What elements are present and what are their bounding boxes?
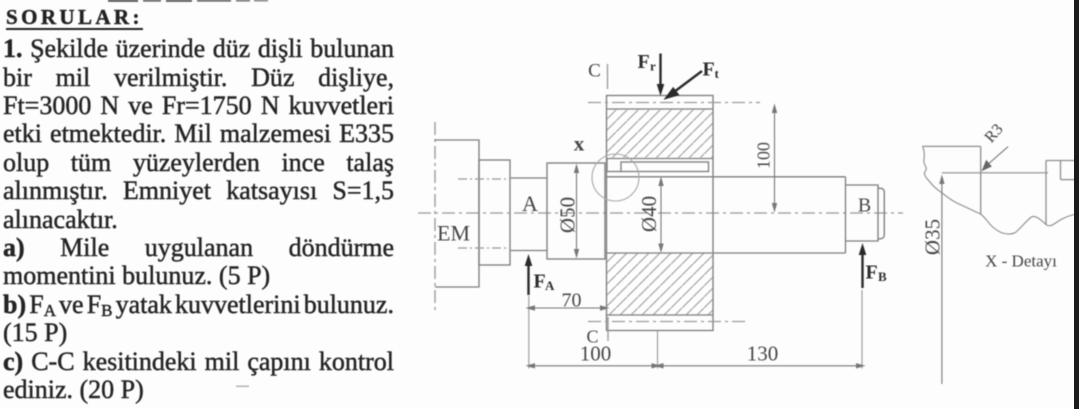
svg-text:130: 130 — [747, 342, 779, 366]
svg-text:t: t — [715, 66, 720, 81]
svg-text:EM: EM — [437, 221, 470, 246]
svg-text:r: r — [650, 59, 656, 74]
svg-text:B: B — [878, 269, 887, 284]
svg-text:R3: R3 — [982, 121, 1007, 146]
svg-text:70: 70 — [562, 290, 582, 312]
svg-text:100: 100 — [754, 142, 774, 169]
svg-text:A: A — [545, 278, 555, 293]
svg-text:A: A — [522, 191, 538, 216]
svg-text:Ø50: Ø50 — [556, 197, 580, 233]
svg-text:F: F — [534, 271, 546, 293]
svg-text:F: F — [638, 51, 650, 73]
svg-text:x: x — [574, 132, 585, 156]
svg-text:F: F — [866, 262, 878, 284]
svg-text:B: B — [858, 195, 871, 217]
svg-text:100: 100 — [580, 342, 612, 366]
svg-text:F: F — [703, 58, 715, 80]
svg-text:X - Detayı: X - Detayı — [985, 252, 1057, 271]
svg-text:Ø40: Ø40 — [637, 196, 661, 232]
svg-text:C: C — [588, 61, 601, 82]
svg-text:Ø35: Ø35 — [921, 219, 945, 255]
